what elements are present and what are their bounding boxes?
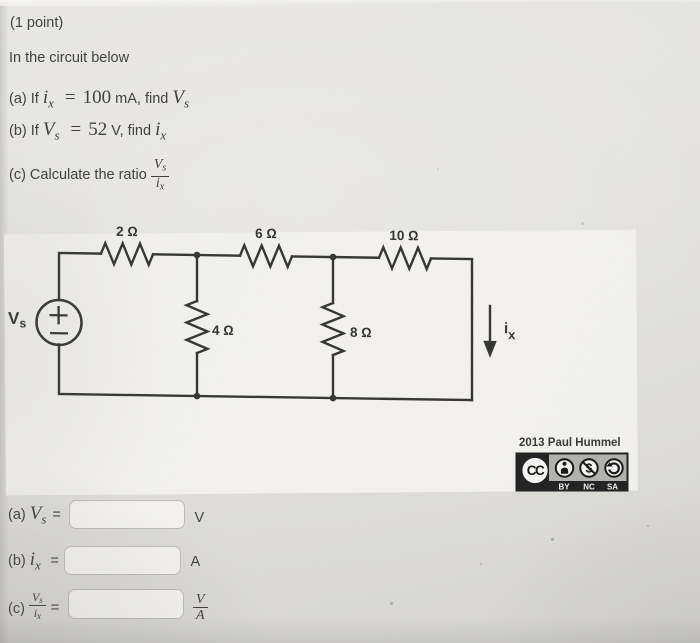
wire: 8-ohm branch upper lead [332, 257, 334, 303]
BY (attribution) icon [556, 459, 573, 476]
answers [8, 507, 61, 524]
resistor R3 10ohm (top right) [379, 247, 431, 269]
node C: bottom junction of 4-ohm branch [194, 393, 201, 400]
wire: top between 2-ohm and 6-ohm [153, 254, 240, 255]
resistor R4 4ohm (vertical) [187, 301, 208, 353]
BY NC SA abbreviations [558, 483, 618, 492]
resistor R5 8ohm (vertical) [323, 303, 344, 355]
credit + CC badge [519, 435, 621, 452]
voltage source plus sign [51, 307, 67, 323]
wire: bottom rail [59, 344, 472, 400]
CC logo circle [522, 458, 547, 483]
node A: top junction of 4-ohm branch [194, 252, 201, 259]
NC (non-commercial) icon [580, 459, 597, 476]
SA (share-alike) icon [605, 459, 622, 476]
CC license badge [515, 452, 629, 492]
voltage source minus sign [51, 332, 67, 335]
wire: 4-ohm branch upper lead [196, 255, 198, 301]
white panel behind circuit [4, 230, 638, 496]
node D: bottom junction of 8-ohm branch [330, 395, 337, 402]
resistor R1 2ohm (top left) [101, 243, 153, 265]
badge gray field [549, 455, 627, 482]
wire: top-left segment from source to 2-ohm resistor [59, 253, 101, 301]
resistor R2 6ohm (top middle) [240, 245, 292, 267]
node B: top junction of 8-ohm branch [330, 254, 337, 261]
dust specks (photo artifacts) [551, 538, 554, 541]
wire: top-right corner down right side [431, 258, 472, 400]
wire: 4-ohm branch lower lead [196, 353, 198, 396]
voltage source Vs circle [37, 300, 82, 346]
wire: 8-ohm branch lower lead [332, 355, 334, 398]
top text [10, 15, 63, 32]
circuit schematic [0, 210, 700, 455]
photo top edge highlight [0, 0, 700, 6]
wire: top between 6-ohm and 10-ohm [292, 256, 379, 257]
current arrow ix [483, 306, 496, 358]
badge frame (black) [516, 453, 629, 492]
